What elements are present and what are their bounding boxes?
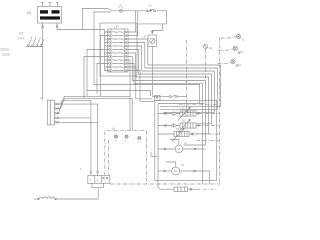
resistor R bottom	[174, 187, 188, 191]
wire A4 LP row6 loop to heater row2	[129, 50, 212, 124]
svg-text:R3: R3	[176, 128, 180, 131]
svg-text:E1: E1	[242, 39, 246, 42]
motor M1	[175, 145, 183, 153]
row1 arrow	[178, 107, 190, 120]
svg-text:~: ~	[43, 193, 45, 197]
dash-dot boundary horizontal top	[179, 103, 220, 105]
motor M2 top stub	[166, 162, 176, 167]
svg-text:M: M	[177, 147, 180, 151]
wire riser x97 to LP entry	[97, 64, 105, 95]
svg-text:R2: R2	[182, 120, 186, 123]
LP pin rows	[105, 31, 130, 71]
wire X1 pin5 tee	[56, 121, 97, 123]
lamp E1 blade dash-dot	[220, 37, 236, 39]
svg-text:E4: E4	[209, 47, 213, 50]
wire mini switch to boundary	[177, 95, 187, 97]
svg-text:U5: U5	[143, 35, 147, 39]
wire main left vertical from battery to connector X	[42, 30, 44, 101]
row1 wires	[158, 113, 199, 115]
switch S1 inline on top bus	[146, 9, 156, 12]
svg-text:U2: U2	[19, 32, 23, 36]
battery top stub 3	[56, 2, 59, 6]
device U5 box with sensor circle	[148, 35, 157, 47]
wire from U5 down then right to mini switch	[152, 47, 169, 97]
wire X1 pin3 up-right then down to connector X2	[56, 101, 91, 172]
wire branch to U5	[152, 24, 162, 33]
LP left rail	[104, 30, 106, 72]
linkage lamp 2	[125, 135, 128, 138]
console inner rail left	[157, 104, 159, 177]
battery bottom pin right with arrow	[56, 23, 58, 30]
wire battery right pin to LP left rail	[57, 29, 105, 31]
battery top stub 1	[41, 2, 44, 6]
svg-text:b: b	[80, 167, 82, 171]
svg-text:1: 1	[90, 178, 92, 182]
row3 heater rect	[174, 131, 189, 136]
row2 heater rect	[180, 123, 196, 128]
resistor dash-dot to right boundary	[197, 188, 217, 190]
wire riser x82.5 to top bus	[83, 9, 145, 30]
row1 heater rect	[180, 111, 196, 116]
svg-text:M: M	[182, 163, 185, 167]
wire lower horizontal y90.5	[87, 91, 151, 97]
svg-text:E2: E2	[240, 51, 244, 54]
console inner rail bottom extension	[157, 176, 159, 186]
mini switch S2	[169, 95, 177, 97]
connector X1 body	[47, 100, 54, 125]
X2 pin circles	[90, 171, 99, 175]
inductor L1	[37, 197, 57, 200]
wire from switch S1 right down and back to outer box top	[139, 11, 167, 24]
connector X1 pins	[55, 103, 59, 123]
faint printed marks left margin	[0, 37, 24, 56]
row2 valve item	[171, 124, 178, 127]
wire LP row9 down to linkage box	[129, 60, 130, 131]
wire riser x87 to LP entry	[87, 50, 105, 97]
dash-dot short horizontal 2	[181, 108, 199, 110]
connector LP body	[108, 29, 129, 72]
X2 right cell cross marks	[102, 177, 108, 179]
svg-text:b: b	[125, 140, 127, 143]
wire A3 LP row5 loop to console feed 3	[129, 46, 215, 112]
svg-text:a: a	[115, 140, 117, 143]
wire LP row11 down to console top	[129, 67, 152, 99]
svg-text:X: X	[40, 96, 42, 100]
row3 arrow	[172, 128, 184, 141]
row2 wires	[158, 125, 199, 127]
junction drop x135.7/137.8 to relay box and LP top rows	[129, 11, 138, 36]
wire X1 pin4 tee	[56, 117, 91, 119]
row2 arrow	[178, 119, 190, 132]
wire X1 pin1 right then down to connector X2	[56, 104, 97, 171]
battery B1 body	[38, 7, 62, 24]
X2 bottom bracket	[92, 183, 104, 187]
wire X2 down to inductor	[57, 188, 98, 199]
row3 dash-dot to right boundary	[195, 133, 220, 135]
dash-dot horizontal y140.7	[197, 140, 220, 142]
svg-text:M: M	[174, 169, 177, 173]
svg-text:2: 2	[96, 178, 98, 182]
row1 dash-dot to right boundary	[198, 113, 220, 115]
motor M1 wires	[158, 148, 206, 150]
dash-dot vertical x186.5	[186, 40, 188, 113]
relay board outer box	[100, 23, 137, 76]
wire A1 LP row3 loop to console feed 1	[129, 39, 221, 106]
resistor R wires	[157, 186, 197, 190]
lamp E2 blade dash-dot	[218, 49, 233, 50]
dash-dot boundary vertical x219.6	[219, 38, 221, 184]
linkage lamp 1	[114, 135, 117, 138]
switch U2	[26, 37, 44, 47]
svg-text:c: c	[138, 141, 140, 144]
bottom connector X2 body	[88, 176, 110, 184]
console inner corner wires left	[151, 152, 158, 156]
wire A2 LP row4 loop to console feed 2	[129, 43, 218, 110]
motor M2 wires	[158, 170, 210, 184]
svg-text:H1: H1	[119, 4, 123, 8]
row2 dash-dot to right boundary	[198, 125, 220, 127]
motor M2	[172, 167, 180, 175]
small connector on console top-left	[155, 96, 161, 101]
wire X1 pin2 up-right to linkage drop 2	[56, 98, 132, 130]
relay board outermost left wire	[94, 12, 111, 85]
svg-text:B1: B1	[27, 10, 33, 15]
wire LP row12 down to console corner	[129, 71, 155, 102]
arrow into U5	[151, 31, 153, 34]
wire A7 LP row10 loop to resistor R	[129, 64, 203, 185]
motor M1 top stub	[170, 140, 179, 146]
battery bottom pin left with arrow	[41, 23, 43, 30]
dash-dot from E4 down	[205, 49, 207, 84]
lamp E1	[236, 34, 240, 38]
inductor left stub	[34, 198, 38, 200]
lamp E3	[231, 59, 238, 66]
lamp H1 inline on top bus	[119, 8, 123, 12]
battery top stub 2	[48, 2, 51, 6]
wire A6 LP row8 loop to motor M1	[129, 57, 206, 146]
linkage dash-dot drop 2	[107, 140, 109, 176]
wire riser x84 to LP entry	[84, 57, 105, 99]
linkage lamp 3	[138, 136, 141, 139]
row3 wires	[158, 133, 194, 135]
svg-text:E3: E3	[238, 64, 242, 67]
wire A8 long feed from outer rail	[94, 85, 200, 105]
console outer rect	[155, 101, 217, 181]
lamp E3 blade dash-dot	[218, 62, 232, 64]
wire A5 LP row7 loop to heater row3	[129, 53, 209, 134]
console inner top edge	[158, 103, 204, 105]
row1 valve item	[171, 112, 178, 115]
dash-dot boundary horizontal bottom	[110, 183, 220, 185]
wire riser x100.5 to LP entry	[101, 36, 105, 97]
svg-text:S1: S1	[149, 4, 153, 8]
svg-text:W: W	[112, 127, 115, 131]
lamp E2	[233, 46, 240, 53]
linkage box dash-dot	[105, 131, 147, 184]
svg-text:LP: LP	[114, 25, 118, 29]
wire X1 pin2b diagonal to linkage drop 1	[60, 96, 130, 104]
svg-text:M: M	[185, 141, 188, 145]
sensor E4 circle	[203, 44, 207, 48]
